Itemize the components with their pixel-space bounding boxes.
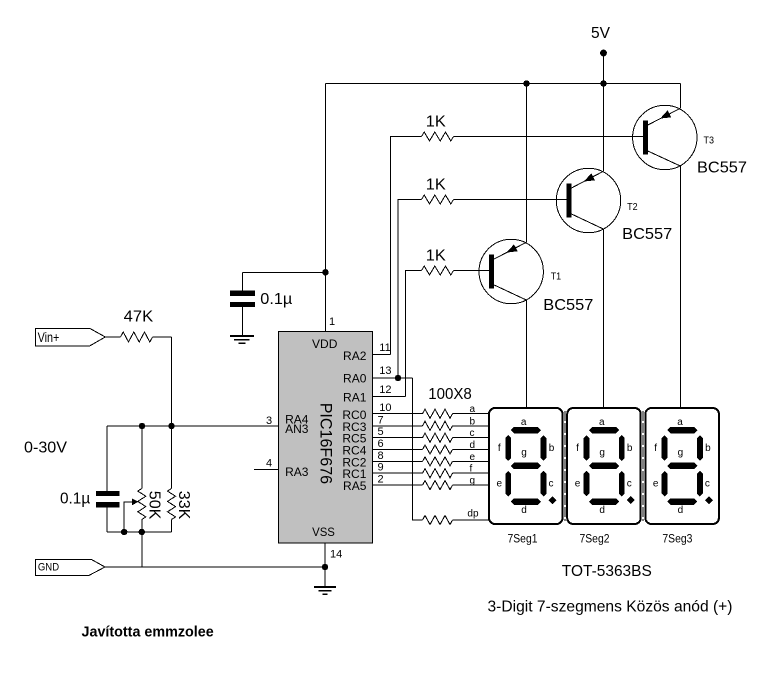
svg-text:d: d [599,505,605,516]
svg-text:T2: T2 [627,202,638,213]
svg-text:e: e [575,479,581,490]
svg-text:d: d [521,505,527,516]
svg-text:47K: 47K [124,309,154,326]
wire RA2 riser [391,137,422,355]
svg-text:0.1µ: 0.1µ [60,491,90,508]
wire 47K drop [171,337,173,426]
resistor array e [423,457,453,466]
svg-text:f: f [498,443,501,454]
resistor array d [423,445,453,454]
flag GND [35,560,105,576]
node RA0 junction [395,375,401,381]
svg-text:g: g [599,448,605,459]
svg-text:100X8: 100X8 [428,386,472,403]
svg-text:b: b [470,416,476,427]
svg-text:RA3: RA3 [285,465,309,479]
node rail junction T1 [523,80,529,86]
capacitor C1 0.1u [60,426,119,532]
svg-text:Vin+: Vin+ [38,329,60,345]
power 5V terminal [591,25,610,84]
svg-text:GND: GND [38,562,59,574]
display pin stubs between 7Seg1 and 7Seg2 [564,411,566,521]
svg-text:3: 3 [266,415,272,427]
svg-text:e: e [497,479,503,490]
transistor T3 BC557 [633,105,748,176]
svg-text:c: c [705,479,710,490]
svg-text:0.1µ: 0.1µ [260,291,292,308]
transistor T1 BC557 [479,239,593,314]
ground under C2 [230,336,254,343]
node junction pot bottom [139,529,145,535]
svg-text:6: 6 [378,438,384,450]
wire GND rail [105,566,325,568]
svg-text:7Seg1: 7Seg1 [508,534,538,546]
svg-text:a: a [677,417,683,428]
svg-text:10: 10 [379,402,391,414]
svg-text:11: 11 [379,342,390,354]
wire T1 base wire [454,270,490,272]
7-segment display 7Seg3 [645,408,719,524]
svg-text:1K: 1K [426,113,446,130]
node rail junction T2 [600,80,606,86]
svg-text:c: c [549,479,554,490]
svg-text:1K: 1K [426,247,446,264]
svg-text:g: g [678,448,684,459]
svg-text:VSS: VSS [312,525,335,539]
wire AN3 input wire [107,425,279,427]
svg-text:a: a [470,404,476,415]
svg-text:a: a [521,417,527,428]
resistor array dp [423,516,453,525]
display pin stubs between 7Seg2 and 7Seg3 [642,411,644,521]
svg-text:PIC16F676: PIC16F676 [317,403,336,484]
wire segment row c [373,437,423,439]
svg-text:BC557: BC557 [622,226,672,243]
svg-text:RA5: RA5 [343,479,367,493]
svg-text:0-30V: 0-30V [24,440,67,457]
svg-text:e: e [653,479,659,490]
svg-text:b: b [549,443,555,454]
svg-text:TOT-5363BS: TOT-5363BS [562,563,652,580]
flag Vin+ [35,329,105,347]
svg-text:BC557: BC557 [697,159,747,176]
svg-text:g: g [521,448,527,459]
svg-text:e: e [470,452,476,463]
wire RA2 pin 11 stub [373,354,391,356]
resistor 47K [105,309,171,343]
svg-text:Javította emmzolee: Javította emmzolee [82,624,214,641]
node VDD junction [322,269,328,275]
transistor T2 BC557 [556,168,672,243]
svg-text:AN3: AN3 [285,422,309,436]
resistor 33K [168,426,193,532]
wire VDD cap wire [242,271,325,273]
wire bottom wire [107,531,172,533]
svg-text:5V: 5V [591,25,610,42]
svg-text:f: f [654,443,657,454]
wire dp to display [453,519,490,521]
resistor array b [423,421,453,430]
wire RA1 pin 12 stub [373,395,406,397]
wire T1 emitter to rail [526,84,528,243]
svg-text:8: 8 [378,450,384,462]
wire T3 emitter to rail [680,84,682,109]
svg-text:1: 1 [329,316,335,328]
svg-text:5: 5 [378,426,384,438]
svg-text:d: d [678,505,684,516]
U1 pin RA4/AN3 labels [285,413,309,437]
svg-text:VDD: VDD [312,337,338,351]
resistor array c [423,433,453,442]
node junction pot top [139,423,145,429]
ground VSS [314,567,336,594]
wire RA0 riser [398,200,422,379]
svg-text:f: f [576,443,579,454]
svg-text:7Seg2: 7Seg2 [580,534,610,546]
svg-text:50K: 50K [145,491,162,520]
wire T2 collector to 7Seg2 [603,229,605,407]
wire T3 collector to 7Seg3 [680,166,682,407]
svg-text:T1: T1 [551,272,562,283]
node junction wiper [121,529,127,535]
capacitor C2 0.1u [230,272,292,336]
wire RA0 pin 13 stub [373,377,413,379]
node junction VSS [322,564,328,570]
svg-text:f: f [470,464,473,475]
svg-text:RA1: RA1 [343,391,367,405]
7-segment display 7Seg1 [489,408,563,524]
svg-text:b: b [627,443,633,454]
wire VDD drop [325,84,327,332]
U1 VSS wire [324,543,326,567]
svg-text:T3: T3 [704,135,715,146]
wire RA1 riser [406,271,422,397]
wire segment row g [373,484,423,486]
wire T2 emitter to rail [603,84,605,172]
svg-text:13: 13 [379,365,391,377]
node junction 47K/AN3 [168,423,174,429]
svg-text:9: 9 [378,462,384,474]
wire segment row e [373,460,423,462]
7-segment display 7Seg2 [567,408,641,524]
wire T2 base wire [454,199,567,201]
svg-text:4: 4 [266,458,272,470]
wire segment row b [373,425,423,427]
svg-text:b: b [705,443,711,454]
svg-text:c: c [627,479,632,490]
wire T1 collector to 7Seg1 [526,300,528,407]
wire segment row f [373,472,423,474]
svg-text:c: c [470,428,475,439]
svg-text:g: g [470,476,476,487]
svg-text:1K: 1K [426,177,446,194]
svg-text:12: 12 [379,384,391,396]
IC U1 PIC16F676 [279,332,373,544]
potentiometer 50K [124,426,162,532]
svg-text:d: d [470,440,476,451]
wire top 5V rail [326,83,681,85]
svg-text:14: 14 [330,549,342,561]
svg-text:RA0: RA0 [343,371,367,385]
wire RA3 pin 4 stub [254,469,279,471]
resistor R3 1K [422,113,454,141]
wire segment row a [373,413,423,415]
wire segment row d [373,449,423,451]
svg-text:BC557: BC557 [543,297,593,314]
resistor array f [423,469,453,478]
wire dp feed drop [413,378,423,520]
resistor array g [423,481,453,490]
svg-text:3-Digit 7-szegmens Közös anód: 3-Digit 7-szegmens Közös anód (+) [488,599,733,616]
svg-text:RA2: RA2 [343,349,367,363]
resistor R1 1K [422,247,454,275]
svg-text:7: 7 [378,414,384,426]
svg-text:33K: 33K [175,491,192,520]
wire T3 base wire [454,136,644,138]
svg-text:dp: dp [467,509,479,520]
resistor R2 1K [422,177,454,205]
svg-text:a: a [599,417,605,428]
wire pot to gnd rail [141,532,143,567]
svg-text:2: 2 [378,474,384,486]
svg-text:7Seg3: 7Seg3 [662,534,692,546]
resistor array a [423,409,453,418]
